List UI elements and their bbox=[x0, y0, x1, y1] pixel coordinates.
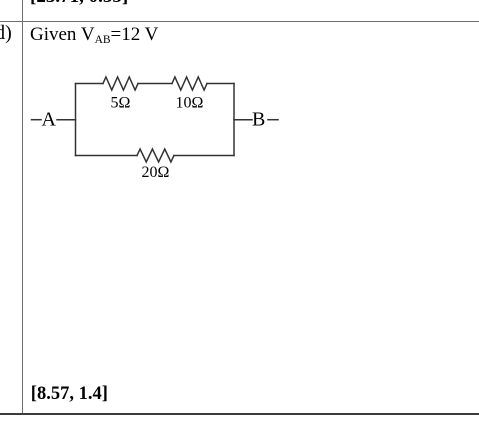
wire node A to left branch bbox=[57, 119, 76, 121]
resistor 20ohm zigzag bbox=[137, 149, 174, 162]
svg-text:5Ω: 5Ω bbox=[111, 95, 131, 112]
clipped answer text of previous row bbox=[30, 0, 128, 6]
table cell divider: vertical line bbox=[22, 0, 23, 414]
table row divider: horizontal line bbox=[0, 21, 479, 22]
wire top middle segment bbox=[138, 83, 172, 85]
resistor 10ohm zigzag bbox=[172, 77, 207, 90]
table bottom border line bbox=[0, 413, 479, 415]
wire top right segment bbox=[207, 83, 234, 85]
wire top left segment bbox=[76, 83, 104, 85]
svg-text:B: B bbox=[252, 108, 265, 130]
wire right branch to node B bbox=[234, 119, 252, 121]
given statement text bbox=[30, 25, 158, 47]
item label d) bbox=[0, 23, 12, 43]
wire bottom left segment bbox=[76, 155, 138, 157]
wire bottom right segment bbox=[174, 155, 234, 157]
node B terminal stub bbox=[268, 119, 278, 121]
wire left vertical bbox=[75, 84, 77, 156]
svg-text:20Ω: 20Ω bbox=[142, 164, 170, 181]
svg-text:A: A bbox=[42, 108, 57, 130]
node A terminal stub bbox=[32, 119, 42, 121]
svg-text:10Ω: 10Ω bbox=[176, 95, 204, 112]
wire right vertical bbox=[233, 84, 235, 156]
resistor 5ohm zigzag bbox=[103, 77, 138, 90]
answer text bbox=[31, 385, 108, 404]
